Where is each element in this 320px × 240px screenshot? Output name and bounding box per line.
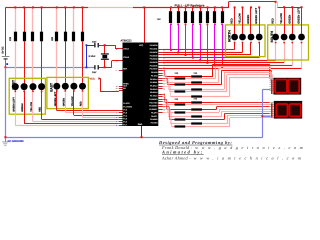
pin 6 P1.5 [119, 121, 123, 122]
traffic light box WEST [9, 78, 45, 114]
wire ground rail bottom (blue) [5, 137, 263, 138]
wire P3.4 to resistor RD2-5 [163, 103, 169, 106]
svg-text:P2.5/A13: P2.5/A13 [150, 88, 157, 91]
LED D-N1 RED [231, 34, 238, 41]
resistor RD2-4 220 [175, 111, 186, 113]
wire MCU GND to ground rail [141, 126, 142, 138]
resistor RP7 10K pull-up [214, 7, 215, 11]
wire VCC to EA pin [100, 79, 101, 92]
pin 4 P1.3 [119, 117, 123, 118]
resistor R-W1 220 [14, 32, 17, 42]
wire P2.0 to resistor RD1-1 [163, 69, 165, 72]
pin 9 RST [119, 70, 123, 71]
resistor RD1-2 220 [175, 77, 186, 79]
wire VCC rail south jog [277, 2, 278, 7]
seven segment display DS2 [274, 101, 302, 119]
pin 17 P3.7/RD stub [158, 112, 162, 113]
wire pull-up 5 to P0.4 (magenta) [200, 24, 201, 60]
wire RD1-4 to display1 pin [185, 84, 221, 85]
resistor RD2-2 220 [175, 103, 186, 105]
svg-text:P0.0/AD0: P0.0/AD0 [150, 44, 158, 47]
pin 31 EA [119, 90, 123, 91]
svg-text:XTAL2: XTAL2 [123, 56, 129, 59]
wire P0.6 to SOUTH LED3 [163, 65, 293, 66]
wire P0.5 to SOUTH LED2 [163, 62, 284, 63]
pin 2 P1.1/T2EX [119, 112, 123, 113]
wire P3.6 to resistor RD2-7 [163, 108, 171, 111]
svg-text:RED: RED [231, 18, 234, 24]
wire EAST LED4 cathode to P1.3 [82, 92, 83, 118]
wire left ground bus down (blue) [5, 67, 6, 137]
svg-text:P3.2/INT0: P3.2/INT0 [149, 105, 157, 108]
svg-text:XTAL1: XTAL1 [123, 48, 129, 51]
junction GND rail [141, 136, 143, 138]
svg-text:P0.4/AD4: P0.4/AD4 [150, 58, 158, 61]
wire RD1-1 to display1 pin [202, 76, 213, 77]
wire P0.3 to NORTH LED4 [163, 57, 260, 58]
resistor RP3 10K pull-up [185, 7, 186, 11]
svg-text:P0.5/AD5: P0.5/AD5 [150, 61, 158, 64]
wire RD2-3 to display2 pin [202, 109, 216, 110]
pin 36 P0.3/AD3 stub [158, 57, 162, 58]
wire VCC to resistor WEST4 [41, 7, 42, 32]
resistor R-W3 220 [31, 32, 34, 42]
junction battery-ground [4, 66, 6, 68]
svg-text:P1.2: P1.2 [123, 108, 127, 111]
wire VCC to resistor EAST4 [82, 7, 83, 32]
wire EAST LED3 cathode to P1.2 [73, 92, 74, 116]
display2 decimal point [275, 116, 276, 117]
wire ground rail upper (blue) [5, 67, 94, 68]
wire battery negative to ground rail [5, 60, 6, 68]
LED D-E1 GREEN LEFT [53, 83, 60, 90]
traffic light box NORTH [226, 25, 266, 57]
traffic light box SOUTH [268, 25, 309, 60]
svg-text:30pf: 30pf [92, 71, 97, 74]
pin 26 P2.5 stub [158, 83, 162, 84]
wire P3.0 to resistor RD2-1 [163, 93, 165, 96]
pin 27 P2.6 stub [158, 86, 162, 87]
svg-text:P2.1/A9: P2.1/A9 [151, 74, 157, 77]
wire resistor to LED EAST2 [65, 41, 66, 82]
svg-text:AT89C52: AT89C52 [121, 39, 133, 42]
wire C1 to XTAL1 node [99, 45, 105, 46]
wire VCC to resistor EAST3 [73, 7, 74, 32]
svg-text:VCC: VCC [139, 44, 144, 47]
wire resistor to LED EAST1 [56, 41, 57, 82]
svg-text:EAST: EAST [49, 83, 53, 92]
wire VCC to resistor EAST2 [65, 7, 66, 32]
wire crystal blue net [86, 45, 87, 68]
wire P3.5 to resistor RD2-6 [163, 105, 170, 108]
resistor R-E2 220 [64, 32, 67, 42]
wire P0.2 to NORTH LED3 [163, 54, 251, 55]
svg-text:P1.5: P1.5 [123, 117, 127, 120]
pin 3 P1.2 [119, 115, 123, 116]
svg-text:GREEN: GREEN [288, 15, 291, 24]
wire VCC to SOUTH LED1 [275, 2, 276, 34]
wire P2.4 to resistor RD1-5 [163, 79, 169, 82]
wire P2.3 to resistor RD1-4 [163, 77, 168, 80]
pin 29 PSEN [119, 86, 123, 87]
svg-text:P0.6/AD6: P0.6/AD6 [150, 64, 158, 67]
resistor RD1-1 220 [191, 75, 202, 77]
pin 21 P2.0 stub [158, 70, 162, 71]
svg-text:P0.3/AD3: P0.3/AD3 [150, 54, 158, 57]
resistor RD2-6 220 [175, 118, 186, 120]
wire P0.7 to SOUTH LED4 [163, 68, 302, 69]
svg-text:GND: GND [138, 123, 143, 126]
capacitor C2 30pf [94, 65, 95, 69]
wire RD1-7 to display1 pin [202, 96, 230, 97]
resistor R-E4 220 [81, 32, 84, 42]
resistor RP5 10K pull-up [200, 7, 201, 11]
resistor RP1 10K pull-up [170, 7, 171, 11]
wire C2 to XTAL2 node [99, 67, 105, 68]
svg-text:Animated by:: Animated by: [161, 149, 204, 154]
svg-text:P3.1/TXD: P3.1/TXD [150, 101, 158, 104]
junction XTAL2 node [104, 66, 106, 68]
wire XTAL1 to MCU [105, 45, 116, 46]
svg-text:YELLOW: YELLOW [280, 13, 283, 24]
pin 11 P3.1/TXD stub [158, 96, 162, 97]
svg-text:GREEN: GREEN [21, 103, 24, 112]
resistor RD2-5 220 [191, 115, 202, 117]
wire VCC to SOUTH LED4 [301, 7, 302, 33]
resistor R-W4 220 [40, 32, 43, 42]
wire RD1-3 to display1 pin [202, 82, 219, 83]
LED D-S2 YELLOW [281, 34, 288, 41]
wire resistor to LED WEST4 [41, 41, 42, 83]
pin 19 XTAL1 [119, 48, 123, 49]
svg-text:P0.7/AD7: P0.7/AD7 [150, 68, 158, 71]
pin 37 P0.2/AD2 stub [158, 54, 162, 55]
svg-text:P1.0/T2: P1.0/T2 [123, 102, 129, 105]
pin 28 P2.7 stub [158, 88, 162, 89]
svg-text:GREEN: GREEN [247, 15, 250, 24]
svg-text:10K: 10K [157, 18, 161, 21]
pin 7 P1.6 [119, 123, 123, 124]
pin 23 P2.2 stub [158, 75, 162, 76]
svg-text:P1.6: P1.6 [123, 121, 127, 124]
wire P2.5 to resistor RD1-6 [163, 82, 170, 85]
pin 35 P0.4/AD4 stub [158, 60, 162, 61]
pin 1 P1.0/T2 [119, 110, 123, 111]
svg-text:P3.4/T0: P3.4/T0 [151, 111, 157, 114]
svg-text:GREEN LEFT: GREEN LEFT [12, 97, 15, 112]
pin 33 P0.6/AD6 stub [158, 65, 162, 66]
wire P0.4 to SOUTH LED1 [163, 60, 276, 61]
wire RD2-4 to display2 pin [185, 112, 219, 113]
svg-text:GREEN LEFT: GREEN LEFT [255, 7, 258, 23]
wire P3.3 to resistor RD2-4 [163, 100, 168, 103]
capacitor C1 30pf [94, 43, 95, 47]
wire VCC to resistor WEST1 [15, 7, 16, 32]
svg-text:P1.7: P1.7 [123, 124, 127, 127]
wire resistor to LED WEST2 [24, 41, 25, 83]
node blue junction bottom [86, 66, 88, 68]
node blue junction top [86, 44, 88, 46]
wire battery positive drop [5, 7, 6, 56]
wire resistor to LED EAST4 [82, 41, 83, 82]
LED D-E3 YELLOW [70, 83, 77, 90]
wire VCC rail jog up at right [228, 2, 229, 8]
svg-text:P2.2/A10: P2.2/A10 [150, 78, 157, 81]
wire pull-up 1 to P0.0 (magenta) [170, 24, 171, 50]
wire resistor to LED WEST1 [15, 41, 16, 83]
resistor RD1-5 220 [191, 88, 202, 90]
LED D-S1 RED [272, 34, 279, 41]
wire resistor to LED WEST3 [32, 41, 33, 83]
pin 15 P3.5/T1 stub [158, 106, 162, 107]
pin 25 P2.4 stub [158, 80, 162, 81]
LED D-N2 YELLOW [239, 34, 246, 41]
wire P2.2 to resistor RD1-3 [163, 74, 167, 77]
wire P3.2 to resistor RD2-3 [163, 98, 167, 101]
svg-text:5V DC: 5V DC [2, 46, 5, 53]
wire EAST LED1 cathode to P1.0 [56, 92, 57, 111]
wire pull-up 7 to P0.6 (magenta) [214, 24, 215, 65]
LED D-W2 GREEN [21, 83, 28, 90]
wire VCC top rail [6, 7, 89, 8]
wire WEST LED3 cathode to P1.6 [32, 92, 33, 122]
wire WEST LED2 cathode to P1.5 [24, 92, 25, 124]
resistor RP4 10K pull-up [192, 7, 193, 11]
svg-text:GREEN LEFT: GREEN LEFT [298, 7, 301, 23]
svg-text:P2.7/A15: P2.7/A15 [150, 95, 157, 98]
wire XTAL2 to MCU [105, 67, 112, 68]
pin 8 P1.7 [119, 125, 123, 126]
svg-text:P3.5/T1: P3.5/T1 [151, 115, 157, 118]
wire P3.7 to resistor RD2-8 [163, 111, 172, 114]
resistor RP6 10K pull-up [207, 7, 208, 11]
svg-text:NORTH: NORTH [228, 30, 232, 42]
wire WEST LED4 cathode to P1.7 [41, 92, 42, 119]
pin 34 P0.5/AD5 stub [158, 62, 162, 63]
svg-text:P3.7/RD: P3.7/RD [151, 121, 158, 124]
svg-text:GREEN: GREEN [62, 98, 65, 107]
wire WEST LED1 cathode to P1.4 [15, 92, 16, 126]
svg-text:P2.3/A11: P2.3/A11 [150, 81, 157, 84]
junction ground-left [4, 136, 6, 138]
wire RD1-6 to display1 pin [185, 91, 226, 92]
resistor RD2-3 220 [191, 108, 202, 110]
junction XTAL1 node [104, 44, 106, 46]
wire P2.6 to resistor RD1-7 [163, 85, 171, 88]
resistor RD2-8 220 [175, 125, 186, 127]
pin 32 P0.7/AD7 stub [158, 68, 162, 69]
seven segment display DS1 [273, 78, 301, 95]
wire VCC to SOUTH LED2 [284, 7, 285, 33]
wire resistor to LED EAST3 [73, 41, 74, 82]
wire RD2-6 to display2 pin [185, 119, 224, 120]
wire RD1-2 to display1 pin [185, 78, 215, 79]
node blue dot [6, 63, 8, 65]
resistor R-E1 220 [55, 32, 58, 42]
pin 18 XTAL2 [119, 60, 123, 61]
LED D-E2 GREEN [62, 83, 69, 90]
traffic light box EAST [47, 77, 89, 108]
wire pull-up 3 to P0.2 (magenta) [185, 24, 186, 55]
resistor RP2 10K pull-up [178, 7, 179, 11]
pin 10 P3.0/RXD stub [158, 94, 162, 95]
pin 16 P3.6/WR stub [158, 109, 162, 110]
svg-text:P1.1/T2EX: P1.1/T2EX [123, 105, 132, 108]
svg-text:DC GROUND: DC GROUND [8, 140, 24, 143]
seven segment display DS2 (pins) [270, 102, 274, 103]
svg-text:P0.1/AD1: P0.1/AD1 [150, 48, 158, 51]
LED D-W4 RED [38, 83, 45, 90]
wire pull-up 2 to P0.1 (magenta) [178, 24, 179, 52]
resistor RD2-1 220 [191, 101, 202, 103]
wire VCC to NORTH LED4 [259, 7, 260, 33]
resistor R-E3 220 [72, 32, 75, 42]
pin 12 P3.2/INT0 stub [158, 99, 162, 100]
LED D-W1 GREEN LEFT [12, 83, 19, 90]
resistor RD2-7 220 [191, 122, 202, 124]
wire RD2-7 to display2 pin [202, 123, 227, 124]
LED D-E4 RED [79, 83, 86, 90]
wire P2.1 to resistor RD1-2 [163, 72, 166, 75]
wire pull-up 6 to P0.5 (magenta) [207, 24, 208, 63]
crystal X1 6MHz [104, 45, 105, 53]
pin 30 ALE [119, 88, 123, 89]
svg-text:P2.6/A14: P2.6/A14 [150, 91, 157, 94]
ground symbol [5, 138, 6, 142]
wire VCC to NORTH LED2 [242, 7, 243, 33]
wire RD2-1 to display2 pin [202, 102, 211, 103]
wire VCC to NORTH LED1 [234, 7, 235, 33]
wire VCC to resistor WEST3 [32, 7, 33, 32]
wire P3.1 to resistor RD2-2 [163, 95, 166, 98]
svg-text:P0.2/AD2: P0.2/AD2 [150, 51, 158, 54]
LED D-W3 YELLOW [30, 83, 37, 90]
wire VCC to resistor WEST2 [24, 7, 25, 32]
seven segment display DS1 (pins) [270, 78, 274, 79]
resistor R-W2 220 [23, 32, 26, 42]
pin 5 P1.4 [119, 119, 123, 120]
resistor RD1-7 220 [191, 95, 202, 97]
wire RD2-5 to display2 pin [202, 116, 222, 117]
svg-text:RED: RED [272, 18, 275, 24]
pin 14 P3.4/T0 stub [158, 104, 162, 105]
svg-text:P1.3: P1.3 [123, 111, 127, 114]
svg-text:P2.0/A8: P2.0/A8 [151, 71, 157, 74]
wire P0.0 to NORTH LED1 [163, 49, 235, 50]
wire VCC to resistor EAST1 [56, 7, 57, 32]
resistor RD1-3 220 [191, 81, 202, 83]
wire pull-up 4 to P0.3 (magenta) [192, 24, 193, 57]
pin 13 P3.3/INT1 stub [158, 101, 162, 102]
wire P0.1 to NORTH LED2 [163, 52, 243, 53]
LED D-S3 GREEN [289, 34, 296, 41]
wire EAST LED2 cathode to P1.1 [65, 92, 66, 113]
svg-text:P3.3/INT1: P3.3/INT1 [149, 108, 157, 111]
pin 24 P2.3 stub [158, 78, 162, 79]
svg-text:30pf: 30pf [92, 40, 97, 43]
wire RD1-5 to display1 pin [202, 89, 224, 90]
wire RD2-8 to display2 pin [185, 126, 230, 127]
wire VCC rail to MCU pin 40 [144, 7, 145, 42]
svg-text:YELLOW: YELLOW [239, 13, 242, 24]
battery BAT1 5V DC [2, 55, 10, 58]
svg-text:P2.4/A12: P2.4/A12 [150, 85, 157, 88]
svg-text:P3.0/RXD: P3.0/RXD [149, 98, 158, 101]
wire pull-up 8 to P0.7 (magenta) [222, 24, 223, 68]
pin 22 P2.1 stub [158, 73, 162, 74]
resistor RD1-4 220 [175, 83, 186, 85]
LED D-N3 GREEN [248, 34, 255, 41]
pin 39 P0.0/AD0 stub [158, 49, 162, 50]
svg-text:P3.6/WR: P3.6/WR [150, 118, 158, 121]
display common cathode blue wire [262, 90, 263, 138]
svg-text:Azhar Ahmed - www.iamtechnica: Azhar Ahmed - www.iamtechnical.com [161, 156, 304, 161]
wire VCC to SOUTH LED3 [292, 7, 293, 33]
svg-text:P1.4: P1.4 [123, 114, 127, 117]
LED D-S4 GREEN LEFT [298, 34, 305, 41]
wire VCC to NORTH LED3 [250, 7, 251, 33]
resistor RP8 10K pull-up [222, 7, 223, 11]
pin 38 P0.1/AD1 stub [158, 52, 162, 53]
LED D-N4 GREEN LEFT [256, 34, 263, 41]
svg-text:6 MHz: 6 MHz [89, 55, 97, 58]
wire RD2-2 to display2 pin [185, 104, 213, 105]
svg-text:VCC: VCC [90, 77, 95, 80]
resistor RD1-6 220 [175, 90, 186, 92]
